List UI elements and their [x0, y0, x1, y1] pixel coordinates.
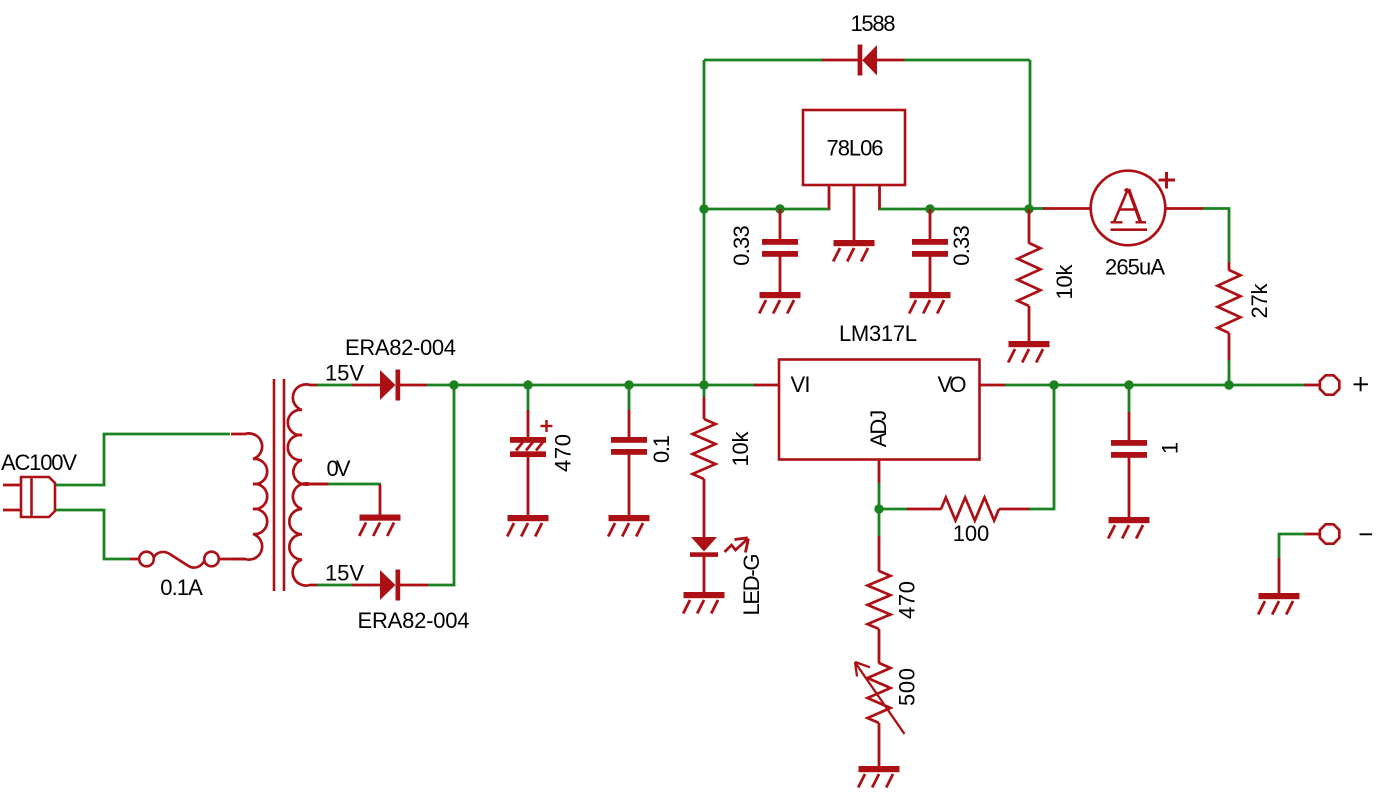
svg-text:78L06: 78L06: [827, 136, 884, 161]
capacitor C5 bottom lead: [1128, 457, 1131, 519]
svg-text:0.33: 0.33: [729, 225, 754, 266]
svg-text:100: 100: [953, 521, 990, 546]
capacitor C3 plates: [762, 239, 798, 257]
wire R1 stub: [703, 385, 706, 398]
LED D3 arrow head: [735, 538, 749, 553]
diode D4 body: [862, 45, 877, 76]
label output minus: [1360, 533, 1373, 535]
wire C5 stub: [1128, 385, 1131, 413]
plug prong pin 1: [3, 484, 21, 487]
terminal J2 minus: [1320, 524, 1339, 543]
diode D1 cathode lead: [400, 384, 429, 387]
wire C1 stub: [527, 385, 530, 411]
wire bus to ammeter: [1029, 207, 1045, 210]
potentiometer VR1 bottom lead: [878, 723, 881, 767]
terminal J1 plus: [1320, 375, 1339, 394]
wire C2 stub: [628, 385, 631, 411]
ground C5: [1108, 517, 1149, 539]
wire top left horizontal: [704, 59, 823, 62]
node junction C2: [624, 380, 633, 389]
svg-text:VO: VO: [938, 372, 967, 397]
svg-text:500: 500: [894, 668, 919, 706]
label output plus: [1354, 377, 1369, 391]
potentiometer VR1 500 body: [868, 663, 891, 723]
ammeter M1 plus mark: [1159, 172, 1176, 189]
capacitor C1 plates: [510, 437, 546, 457]
ammeter M1 right lead: [1165, 207, 1204, 210]
resistor R5 top lead: [878, 536, 881, 572]
ground LED: [683, 592, 724, 614]
potentiometer VR1 arrow: [855, 662, 905, 734]
wire ADJ down stub: [878, 509, 881, 537]
svg-text:ERA82-004: ERA82-004: [358, 608, 470, 633]
capacitor C5 top lead: [1128, 412, 1131, 441]
regulator U2 78L06 box: [803, 110, 905, 185]
regulator U2 pin 1 lead: [828, 185, 831, 210]
svg-text:10k: 10k: [728, 431, 753, 467]
wire D2 cathode up to main rail: [428, 385, 454, 585]
LED D3 body: [691, 537, 717, 552]
node junction R1: [699, 380, 708, 389]
fuse F1 wave: [154, 552, 204, 568]
ammeter M1 letter A: [1111, 189, 1147, 222]
capacitor C1 plus mark: [541, 420, 553, 432]
resistor R3 top lead: [1228, 262, 1231, 271]
capacitor C2 bottom lead: [628, 454, 631, 517]
ground R2: [1008, 341, 1049, 363]
capacitor C3 top lead: [779, 209, 782, 240]
transformer T1 secondary winding bottom: [289, 483, 329, 585]
wire ADJ to R4: [879, 508, 908, 511]
wire R4 to output rail: [1029, 385, 1054, 509]
wire bus right: [880, 208, 1031, 211]
diode D2 body: [380, 570, 396, 600]
regulator U2 pin 3 lead: [878, 185, 881, 210]
regulator U2 pin 2 lead: [853, 185, 856, 242]
ammeter M1 underline: [1111, 228, 1148, 231]
fuse F1 circle right: [204, 552, 219, 567]
transformer T1 primary winding: [231, 433, 267, 559]
capacitor C1 polar hatch: [516, 440, 545, 451]
node junction D1/D2: [449, 380, 458, 389]
capacitor C1 bottom lead: [527, 457, 530, 517]
wire plug-top to transformer: [56, 434, 230, 485]
resistor R1 top lead: [703, 397, 706, 419]
ground J2: [1258, 593, 1299, 615]
resistor R2 bottom lead: [1028, 306, 1031, 342]
wire 15V bottom to D2: [317, 584, 353, 587]
capacitor C4 top lead: [929, 209, 932, 240]
capacitor C2 plates: [611, 437, 647, 455]
ground C3: [759, 292, 800, 314]
capacitor C4 plates: [912, 239, 948, 257]
diode D4 cathode lead: [822, 59, 858, 62]
LED D3 bottom lead: [703, 556, 706, 593]
node junction C3: [775, 204, 784, 213]
svg-text:VI: VI: [791, 372, 811, 397]
wire 0V tap: [328, 483, 381, 486]
svg-text:27k: 27k: [1247, 283, 1272, 319]
capacitor C2 top lead: [628, 410, 631, 438]
diode D2 cathode lead: [400, 584, 429, 587]
node junction output-100: [1049, 380, 1058, 389]
ammeter M1 left lead: [1043, 207, 1092, 210]
fuse F1 lead left: [130, 558, 140, 561]
transformer T1 core line 1: [273, 379, 276, 591]
diode D2 anode lead: [352, 584, 380, 587]
svg-text:ADJ: ADJ: [866, 410, 891, 448]
wire top right horizontal: [904, 59, 1030, 62]
regulator U1 ADJ lead: [878, 460, 881, 484]
wire bus left: [704, 208, 829, 211]
diode D1 cathode bar: [396, 370, 401, 401]
diode D2 cathode bar: [396, 570, 401, 601]
wire minus terminal: [1279, 534, 1305, 559]
svg-text:10k: 10k: [1052, 264, 1077, 300]
wire ammeter to 27k corner: [1203, 209, 1229, 264]
svg-text:LM317L: LM317L: [839, 321, 917, 346]
wire 27k to rail: [1228, 360, 1231, 385]
svg-text:15V: 15V: [325, 561, 364, 586]
LED D3 cathode bar: [690, 552, 718, 557]
wire plug-bottom to fuse: [56, 510, 130, 559]
resistor R4 right lead: [999, 508, 1030, 511]
LED D3 arrow shaft: [725, 539, 749, 553]
node junction bus left: [699, 204, 708, 213]
capacitor C5 plates: [1111, 440, 1147, 458]
node junction R2: [1024, 204, 1033, 213]
capacitor C1 top lead: [527, 410, 530, 438]
svg-text:AC100V: AC100V: [1, 450, 77, 475]
resistor R4 100 body: [941, 498, 999, 521]
resistor R2 10k body: [1018, 243, 1041, 306]
fuse F1 circle left: [139, 552, 154, 567]
ground VR1: [858, 766, 899, 788]
resistor R5 to VR1 lead: [878, 629, 881, 664]
diode D4 cathode bar: [858, 45, 863, 76]
fuse F1 lead right: [219, 558, 245, 561]
svg-text:LED-G: LED-G: [739, 554, 764, 616]
node junction C4: [925, 204, 934, 213]
diode D1 anode lead: [352, 384, 380, 387]
ground C2: [608, 515, 649, 537]
ammeter M1 circle: [1091, 171, 1166, 246]
resistor R3 27k body: [1218, 270, 1241, 333]
diode D4 anode lead: [877, 59, 905, 62]
node junction output-27k: [1224, 380, 1233, 389]
AC plug P1: [21, 477, 55, 517]
resistor R1 bottom lead: [703, 479, 706, 538]
wire minus ground stub: [1278, 558, 1281, 594]
transformer T1 core line 2: [283, 379, 286, 591]
resistor R4 left lead: [907, 508, 942, 511]
node junction ADJ: [874, 504, 883, 513]
node junction output-C5: [1124, 380, 1133, 389]
ground 0V: [359, 515, 400, 537]
resistor R2 top lead: [1028, 209, 1031, 244]
svg-text:1588: 1588: [851, 11, 896, 36]
svg-text:265uA: 265uA: [1105, 255, 1165, 280]
regulator U1 VO lead: [980, 384, 1007, 387]
plug prong pin 2: [3, 509, 21, 512]
wire ADJ stub: [878, 483, 881, 509]
resistor R5 470 body: [868, 571, 891, 629]
ground C4: [909, 292, 950, 314]
svg-text:15V: 15V: [325, 361, 364, 386]
ground U2: [833, 240, 874, 262]
svg-text:470: 470: [550, 434, 575, 472]
capacitor C4 bottom lead: [929, 256, 932, 294]
resistor R1 10k body: [693, 419, 716, 479]
svg-text:0.33: 0.33: [949, 225, 974, 266]
diode D1 body: [380, 370, 396, 400]
svg-text:0V: 0V: [327, 456, 351, 481]
wire 0V ground stub: [379, 485, 382, 517]
wire top right vertical: [1029, 60, 1032, 210]
node junction C1: [523, 380, 532, 389]
svg-text:ERA82-004: ERA82-004: [345, 335, 456, 360]
terminal J2 lead: [1304, 533, 1320, 536]
ground C1: [507, 515, 548, 537]
svg-text:0.1: 0.1: [649, 435, 674, 463]
wire main rail VI: [427, 384, 756, 387]
wire top loop left vertical: [703, 60, 706, 385]
transformer T1 secondary winding top: [288, 384, 329, 484]
capacitor C3 bottom lead: [779, 256, 782, 294]
wire rail to VI: [754, 384, 780, 387]
svg-text:0.1A: 0.1A: [160, 575, 203, 600]
wire output rail: [1005, 384, 1306, 387]
terminal J1 lead: [1304, 384, 1320, 387]
svg-text:1: 1: [1157, 442, 1182, 454]
svg-text:470: 470: [894, 581, 919, 619]
regulator U1 LM317L box: [779, 360, 980, 460]
wire 15V top to D1: [317, 384, 353, 387]
resistor R3 bottom lead: [1228, 333, 1231, 361]
